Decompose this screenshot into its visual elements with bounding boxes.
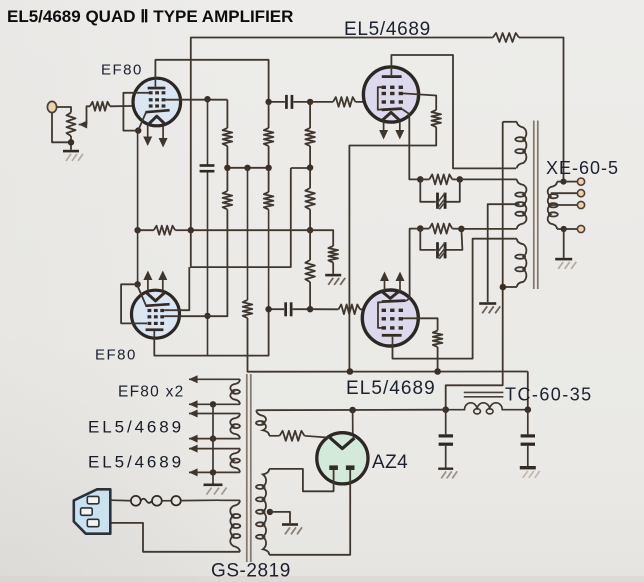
V4 anode bar lead [382, 334, 402, 337]
node pair2 left [417, 225, 424, 232]
V2 cathode bar [145, 304, 169, 306]
V4 g3-cathode bracket [378, 302, 382, 328]
node C1 right [307, 99, 313, 105]
resistor R-grid EL1 [333, 97, 356, 107]
node pair2 right [458, 226, 465, 233]
resistor R-cath1 [429, 174, 452, 184]
svg-text:EF80: EF80 [101, 62, 143, 79]
wire dot to AZ4 [352, 410, 354, 437]
potentiometer VR1 [67, 113, 76, 137]
V2 g3 loop left [121, 284, 147, 323]
capacitor C-cath2 plates [436, 242, 439, 258]
wire to ground 333 [332, 263, 334, 274]
wire top dot to terminal [564, 181, 578, 183]
vertical x137 long [137, 131, 139, 285]
V1 grid dashes [149, 91, 153, 94]
resistor Rc 310 [309, 102, 311, 128]
resistor R-cath2 [429, 224, 452, 234]
V1 g3 loop wire left [123, 93, 135, 131]
wire 310 low to coupling node [309, 282, 311, 309]
node V1 cathode junction [135, 127, 141, 133]
wire bottom dot to terminal [564, 228, 578, 230]
wire rectifier B+ output [256, 409, 445, 412]
V2 anode down right [154, 309, 268, 355]
tube V4 EL5/4689 envelope [362, 290, 418, 346]
V4 cathode bar [382, 301, 406, 302]
wire screen V4 to rail [437, 347, 439, 372]
node C3 left [265, 306, 271, 312]
heater common ground wire [212, 404, 214, 483]
V1 anode wire up and over [155, 60, 268, 100]
wire 310 to row 230 [309, 210, 311, 231]
wire into EF80 g1 [110, 105, 150, 108]
svg-text:EF80: EF80 [95, 347, 137, 364]
wire feedback top rail [191, 38, 493, 231]
V2 g1 wire right to feedback [164, 267, 189, 310]
V3 heater pins arrows [383, 122, 385, 132]
wire pair2 to cathode winding bottom [461, 228, 517, 230]
node railB 247 [244, 165, 250, 171]
svg-text:EL5/4689: EL5/4689 [344, 19, 431, 40]
node V1 g2 [204, 96, 210, 102]
V4 heater pins arrows up [384, 280, 386, 291]
mains plug connector [74, 489, 111, 533]
resistor R-grid EL2 [339, 305, 361, 315]
wire C1 to R-grid [310, 101, 333, 103]
wire C2 down long [207, 173, 209, 356]
resistor Ra 227 [223, 128, 233, 146]
node railB 227 [224, 165, 230, 171]
filter capacitor C-right [527, 410, 529, 435]
OPT cathode winding coil [517, 179, 527, 229]
filter capacitor C-left [445, 410, 447, 435]
capacitor C-cath2 loop [420, 229, 436, 250]
node x207 y316 [204, 313, 210, 319]
fuse F1 [131, 496, 141, 506]
PT primary bottom wire to plug [111, 523, 240, 552]
node secondary top [560, 179, 566, 185]
terminal posts [577, 178, 584, 185]
row 230 wire with feedback resistor [138, 229, 154, 231]
tube V2 EF80 envelope [132, 290, 180, 338]
V3 g3-cathode bracket [378, 87, 382, 110]
PT primary winding [230, 500, 240, 551]
node OPT B+ [500, 284, 507, 291]
node railB 310 [307, 164, 313, 170]
resistor R-screen V4 [433, 331, 443, 348]
resistor R-feedback [493, 33, 519, 42]
V1 cathode lead to node [139, 112, 146, 130]
node secondary bottom [561, 226, 567, 232]
OPT primary top coil [503, 121, 517, 123]
ground filter right [520, 466, 536, 469]
node pair1 right [457, 176, 464, 183]
V2 anode bar and lead [146, 328, 164, 331]
V3 screen line to rail [349, 127, 436, 372]
wire R-rect to AZ4 [305, 436, 330, 438]
V2 g2 wire right [164, 315, 207, 317]
V4 cathode lead up [405, 295, 409, 301]
svg-text:EL5/4689: EL5/4689 [88, 418, 184, 437]
svg-text:EL5/4689: EL5/4689 [88, 453, 184, 472]
wire jack to pot [57, 107, 72, 113]
wire 247 chain down [247, 168, 249, 300]
OPT bottom coil [517, 239, 527, 287]
plug pins [87, 496, 99, 503]
resistor R-screen V3 [431, 110, 441, 127]
PT primary top wire from switch [219, 499, 240, 501]
PT heater winding 1 [230, 379, 240, 404]
V1 g3 stub inside [134, 92, 149, 94]
choke TC-60-35 winding [446, 403, 528, 410]
node choke left [442, 406, 449, 413]
ground secondary [555, 258, 572, 261]
feedback bypass path [191, 168, 291, 267]
svg-text:AZ4: AZ4 [372, 452, 408, 473]
wire R-grid2 into EL2 [360, 308, 382, 310]
rail to choke right [527, 372, 529, 410]
resistor R-grid-stopper input [90, 102, 110, 111]
wire R-grid to EL1 [356, 101, 382, 103]
resistor Rb 268 [268, 102, 270, 128]
ground HV tap [282, 523, 298, 526]
resistor R-fb row230 [154, 226, 175, 235]
V3 cathode bar [382, 109, 402, 110]
node C1 left [265, 99, 271, 105]
node AZ4 filament top [349, 407, 356, 414]
PT HV winding [263, 469, 269, 555]
wire pair2 left stub to V4 cathode [410, 229, 421, 299]
V3 heater chevron [382, 112, 400, 120]
node choke right [525, 406, 532, 413]
tube V1 EF80 envelope [133, 78, 181, 126]
capacitor C-cath1 plates [436, 193, 439, 209]
V5 anode plates [329, 465, 338, 470]
node V2 left [134, 281, 140, 287]
svg-text:EF80 x2: EF80 x2 [118, 384, 184, 401]
ground OPT tap [479, 302, 496, 305]
V2 grid dashes [148, 309, 152, 312]
node 310 row230 [307, 227, 313, 233]
heater wires and arrows [189, 378, 240, 380]
svg-text:TC-60-35: TC-60-35 [505, 385, 593, 405]
wire Ra to rail B [226, 146, 228, 168]
resistor R 310 low [309, 230, 311, 260]
svg-text:GS-2819: GS-2819 [211, 561, 291, 582]
node rail 437 [434, 368, 441, 375]
coupling capacitor C1 [269, 101, 285, 103]
node pair1 left [417, 176, 424, 183]
V1 anode plate and lead [148, 87, 166, 90]
pot wiper arrow [87, 106, 91, 124]
PT heater winding 2 [230, 414, 240, 439]
V3 anode bar lead [382, 75, 402, 78]
wire C3 to R-grid2 [310, 308, 338, 310]
wire pot to ground [70, 136, 72, 150]
resistor R 310 mid [309, 168, 311, 188]
rail 371 wire [250, 371, 528, 373]
node row230 137 [134, 227, 140, 233]
ground mid [325, 274, 341, 277]
ground heater [204, 484, 223, 487]
node pot ground junction [68, 139, 74, 145]
input jack J1 [47, 101, 56, 112]
node rail 350 [347, 368, 354, 375]
V3 g2 wire right [403, 93, 436, 110]
V4 g2 wire right [403, 318, 438, 330]
OPT cathode winding tap to ground [488, 204, 520, 302]
capacitor C-cath1 loop [420, 179, 436, 201]
rail B right segment [291, 167, 310, 169]
choke TC core lines [464, 391, 504, 393]
resistor R 247 lower [243, 300, 253, 318]
wire row230 to ground resistor [310, 230, 333, 246]
V3 grid dashes [382, 86, 386, 89]
V4 anode wire to OPT bottom coil [393, 239, 517, 359]
resistor R 227 mid [226, 168, 228, 191]
OPT core lines [533, 121, 535, 290]
V2 heater pins arrows up [147, 279, 149, 291]
coupling capacitor C3 [269, 308, 285, 310]
secondary tap wires [551, 192, 577, 194]
ground input [63, 150, 79, 153]
V2 cathode lead [138, 284, 146, 305]
wire secondary to ground [563, 229, 565, 258]
svg-text:XE-60-5: XE-60-5 [546, 158, 619, 178]
node row230 190 [188, 227, 194, 233]
V1 heater pins with arrows [147, 124, 149, 137]
resistor R-gnd 333 [328, 246, 338, 263]
V1 cathode bar [145, 110, 169, 112]
wire B+ junction from OPT [446, 122, 503, 410]
V1 heater chevron [147, 116, 166, 125]
node C3 right [307, 306, 313, 312]
node railB 268 [265, 165, 271, 171]
resistor R 268 mid [268, 168, 270, 192]
switch S1 [171, 496, 180, 505]
wire plug to fuse [110, 499, 131, 502]
V5 right anode wire to HV bottom [269, 470, 350, 555]
V5 filament V [330, 438, 355, 449]
wire 268 chain down to coupling row [268, 210, 270, 310]
PT core lines [246, 374, 248, 562]
wire feedback to secondary [519, 38, 564, 182]
wire 247 to rail 371 [248, 318, 250, 372]
tube V3 EL5/4689 envelope [363, 67, 418, 122]
resistor R-rect [280, 431, 305, 441]
wire row230 to 310 [191, 229, 310, 231]
wire switch to primary [181, 499, 219, 501]
V2 heater chevron [146, 292, 165, 301]
wire 227 chain to EF80-2 g2 row [208, 210, 228, 317]
rail B left segment [227, 167, 268, 169]
HV center tap [267, 509, 273, 515]
V5 left anode wire to HV top [269, 469, 333, 491]
capacitor C2 on 207 line [207, 99, 209, 165]
wire R_a drop [226, 100, 228, 128]
PT 4V winding [256, 410, 269, 436]
wire jack ground side [52, 113, 68, 143]
V4 heater chevron [381, 291, 400, 299]
wire fuse to switch [162, 500, 172, 502]
V4 grid dashes [382, 309, 386, 312]
V3 anode wire to OPT top coil [391, 55, 516, 168]
OPT secondary coil [557, 181, 564, 183]
V3 cathode lead down [402, 109, 420, 179]
wire pair1 to cathode winding top [460, 178, 517, 180]
ground filter left [438, 468, 453, 470]
svg-text:EL5/4689 QUAD Ⅱ TYPE AMPLIFIER: EL5/4689 QUAD Ⅱ TYPE AMPLIFIER [7, 7, 293, 26]
tube V5 AZ4 envelope [317, 433, 368, 484]
svg-text:EL5/4689: EL5/4689 [346, 378, 436, 399]
PT heater winding 3 [230, 449, 240, 473]
V1 g2 wire right [165, 99, 227, 101]
